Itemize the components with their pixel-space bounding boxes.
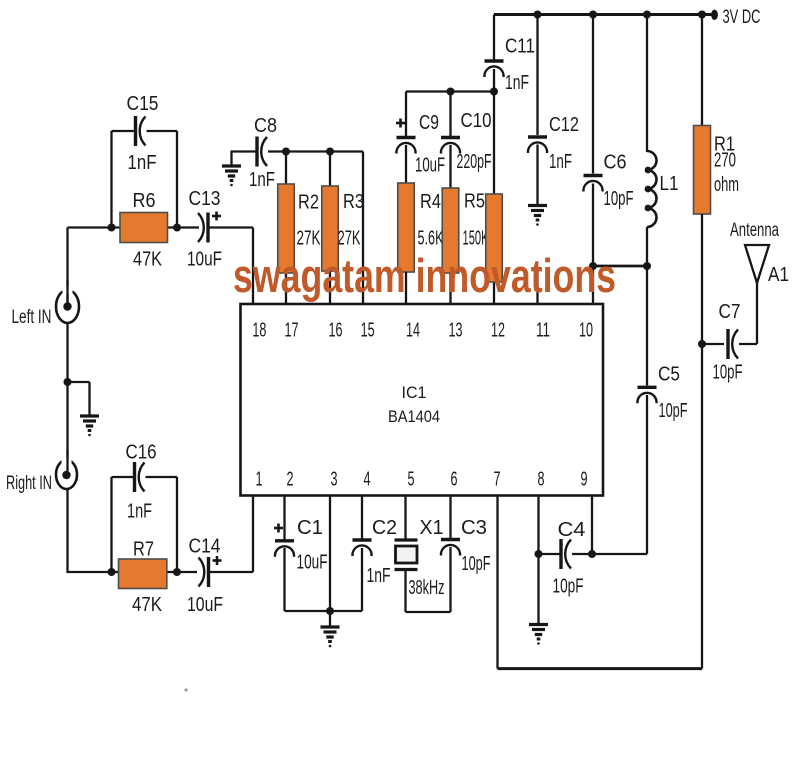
svg-text:11: 11	[536, 320, 550, 342]
capacitor C7	[726, 329, 729, 359]
wire pin 4 to C2	[361, 496, 363, 539]
node ground bus junction	[326, 607, 334, 615]
svg-text:5.6K: 5.6K	[418, 228, 444, 250]
svg-text:C16: C16	[126, 442, 157, 464]
svg-text:10pF: 10pF	[553, 576, 584, 598]
svg-text:27K: 27K	[338, 228, 361, 250]
capacitor C3	[441, 538, 460, 541]
wire pin 11 stub	[536, 268, 538, 304]
capacitor C1 polarity +	[274, 527, 283, 530]
wire 3V DC supply rail	[494, 13, 716, 16]
resistor R5b pin 12	[486, 194, 503, 282]
wire C1 to ground bus	[283, 548, 285, 611]
capacitor C6	[584, 174, 603, 177]
wire bias rail C9-C10-C11	[406, 90, 494, 92]
node C8 rail R3	[326, 148, 334, 156]
svg-text:Right IN: Right IN	[6, 473, 52, 494]
svg-text:swagatam innovations: swagatam innovations	[233, 249, 616, 302]
node C7 junction	[698, 340, 706, 348]
svg-text:C6: C6	[604, 152, 627, 174]
wire pin 9 column	[591, 496, 593, 555]
node 3V DC terminal	[711, 10, 718, 20]
wire ground stub vertical	[88, 382, 90, 416]
node bias junction C11	[490, 88, 498, 96]
svg-text:10uF: 10uF	[187, 249, 222, 271]
svg-text:C1: C1	[297, 517, 323, 539]
svg-text:C14: C14	[189, 536, 221, 558]
svg-text:12: 12	[491, 320, 505, 342]
wire R2 top	[285, 152, 287, 185]
svg-text:17: 17	[285, 320, 299, 342]
ground C12	[528, 204, 547, 207]
wire C14 to pin 1 corner	[209, 571, 254, 573]
wire L1 junction to C5	[646, 266, 648, 386]
wire pin 8 column	[537, 496, 539, 626]
wire L1 to junction	[646, 227, 648, 266]
svg-text:C9: C9	[419, 112, 439, 134]
wire C7 right	[739, 343, 757, 345]
wire R3 top	[329, 152, 331, 187]
wire pin 7 column	[496, 496, 498, 669]
wire ground bus stub	[329, 611, 331, 627]
svg-text:220pF: 220pF	[457, 151, 492, 173]
svg-text:1nF: 1nF	[367, 565, 391, 587]
wire C15 top right	[147, 130, 178, 132]
wire R1 top	[701, 15, 703, 127]
wire ground bus C1-C2	[285, 610, 363, 612]
wire C4 right	[572, 553, 592, 555]
svg-text:10: 10	[579, 320, 593, 342]
svg-text:4: 4	[364, 469, 371, 491]
svg-text:27K: 27K	[297, 228, 321, 250]
wire C7 left	[702, 343, 724, 345]
svg-text:R4: R4	[420, 191, 441, 213]
wire C16 top right	[146, 476, 178, 478]
wire L1 top	[646, 15, 648, 153]
svg-text:10uF: 10uF	[187, 594, 223, 616]
wire C15 top left	[112, 130, 135, 132]
svg-text:C3: C3	[461, 517, 487, 539]
wire C8 left	[231, 150, 257, 152]
resistor R2	[278, 184, 295, 273]
inductor L1	[647, 151, 657, 227]
wire C5 to C4 row	[646, 395, 648, 554]
svg-text:150K: 150K	[463, 228, 489, 250]
capacitor C14 polarity +	[213, 559, 222, 562]
wire antenna down	[756, 281, 758, 344]
capacitor C8	[255, 137, 258, 167]
svg-text:7: 7	[494, 469, 501, 491]
wire pin 6 to C3	[449, 496, 451, 539]
wire C11 node to R-pin12	[493, 92, 495, 196]
wire pin 5 to X1	[404, 496, 406, 541]
svg-text:15: 15	[361, 320, 375, 342]
wire C16 top left	[112, 476, 134, 478]
resistor R6	[120, 213, 168, 243]
wire C15 loop left	[110, 131, 112, 228]
wire C12 top	[536, 15, 538, 136]
capacitor C15	[134, 116, 137, 146]
svg-text:10pF: 10pF	[713, 362, 743, 384]
wire ground stub horizontal	[68, 381, 90, 383]
wire pin 15 column	[362, 152, 364, 305]
capacitor C10	[441, 136, 460, 139]
wire C11 bottom to node	[493, 69, 495, 93]
wire C8 ground stub	[230, 152, 232, 168]
wire C16 loop right	[176, 477, 178, 572]
wire C16 loop left	[110, 477, 112, 572]
wire L1 bottom link	[593, 265, 647, 268]
capacitor C9 polarity +	[396, 122, 405, 125]
wire C8 rail	[268, 150, 363, 152]
svg-text:13: 13	[449, 320, 463, 342]
svg-text:R2: R2	[298, 192, 319, 214]
ground C4	[529, 623, 548, 626]
node C8 rail R2	[282, 148, 290, 156]
node R7 right junction	[173, 568, 181, 576]
svg-text:C10: C10	[461, 110, 492, 132]
wire C2 to ground bus	[361, 548, 363, 611]
jack Right IN	[56, 460, 77, 489]
wire R5 to pin 13	[449, 273, 451, 304]
svg-text:R7: R7	[133, 539, 154, 561]
wire C5 to C4 right	[592, 553, 647, 555]
svg-text:10uF: 10uF	[415, 155, 445, 177]
resistor R7	[119, 559, 167, 589]
wire C6 to pin 10	[592, 184, 594, 305]
wire C3 bottom column	[449, 547, 451, 612]
node supply junction L1	[643, 11, 651, 19]
svg-text:10pF: 10pF	[462, 553, 491, 575]
jack Left IN	[56, 290, 79, 323]
wire R4 to pin 14	[405, 272, 407, 304]
svg-text:3V DC: 3V DC	[723, 7, 761, 28]
svg-text:9: 9	[581, 469, 588, 491]
capacitor C14	[207, 557, 210, 587]
wire C11 top	[493, 15, 495, 60]
resistor R4	[398, 183, 415, 272]
svg-text:C4: C4	[558, 519, 586, 541]
svg-text:3: 3	[331, 469, 338, 491]
svg-text:C8: C8	[254, 115, 277, 137]
wire bottom return rail	[498, 667, 703, 670]
svg-text:IC1: IC1	[402, 384, 427, 402]
wire R2 to pin 17	[285, 273, 287, 304]
wire C10 top	[449, 92, 451, 137]
wire R7 main	[67, 571, 198, 573]
svg-text:ohm: ohm	[714, 174, 739, 196]
svg-text:1: 1	[256, 469, 263, 491]
capacitor C13	[206, 213, 209, 243]
svg-text:47K: 47K	[132, 594, 163, 616]
capacitor C4	[559, 539, 562, 569]
svg-text:R6: R6	[133, 190, 156, 212]
node L1 bottom junction	[643, 262, 651, 270]
wire R6 main	[68, 226, 200, 228]
wire X1 to C3 bottom	[406, 611, 451, 613]
svg-text:A1: A1	[768, 264, 789, 286]
svg-text:BA1404: BA1404	[388, 408, 440, 426]
svg-text:1nF: 1nF	[549, 151, 572, 173]
svg-text:C15: C15	[127, 93, 159, 115]
wire C6 top	[592, 15, 594, 174]
ground C1 C2 bus	[321, 625, 340, 628]
wire C12 to ground	[536, 145, 538, 206]
wire X1 bottom	[404, 570, 406, 613]
svg-text:C7: C7	[719, 301, 741, 323]
svg-text:R3: R3	[343, 191, 364, 213]
node supply junction R1	[698, 11, 706, 19]
wire left column top	[66, 228, 68, 304]
wire C13 to pin 18 corner	[208, 226, 253, 228]
node C4 right junction	[588, 550, 596, 558]
antenna A1	[745, 245, 769, 283]
svg-text:6: 6	[451, 469, 458, 491]
svg-text:270: 270	[714, 150, 736, 172]
wire left column mid	[66, 322, 68, 462]
svg-text:14: 14	[406, 320, 420, 342]
node C4 left junction	[535, 550, 543, 558]
capacitor C9	[397, 136, 416, 139]
stray dot	[184, 688, 187, 691]
svg-text:X1: X1	[420, 517, 444, 539]
node supply junction C6	[589, 11, 597, 19]
node supply junction C12	[534, 11, 542, 19]
wire pin 1 column	[252, 496, 254, 573]
svg-text:10uF: 10uF	[297, 552, 328, 574]
svg-text:10pF: 10pF	[659, 400, 688, 422]
wire pin 2 to C1	[283, 496, 285, 540]
node R7 left junction	[108, 568, 116, 576]
svg-text:C11: C11	[505, 36, 535, 58]
capacitor C11	[485, 59, 504, 62]
op-amp IC1 BA1404 body	[241, 304, 604, 496]
wire R-pin12 to pin 12	[493, 281, 495, 304]
resistor R3	[322, 186, 339, 271]
resistor R5	[442, 188, 459, 273]
node bias junction C10	[447, 88, 455, 96]
wire C15 loop right	[176, 131, 178, 228]
svg-text:Antenna: Antenna	[730, 220, 779, 241]
capacitor C16	[133, 462, 136, 492]
ground C8	[222, 164, 241, 167]
wire C10 to R5	[449, 145, 451, 189]
crystal X1	[395, 538, 418, 541]
svg-text:1nF: 1nF	[127, 501, 152, 523]
wire left column bottom	[66, 488, 68, 573]
svg-text:1nF: 1nF	[128, 152, 157, 174]
capacitor C2	[353, 538, 372, 541]
wire C9 top	[405, 92, 407, 137]
ground left input	[80, 414, 99, 417]
svg-text:2: 2	[287, 469, 294, 491]
capacitor C5	[638, 386, 657, 389]
capacitor C1	[275, 539, 294, 542]
svg-text:C13: C13	[189, 188, 221, 210]
capacitor C12	[528, 135, 547, 138]
wire pin 3 column	[329, 496, 331, 612]
node R6 left junction	[108, 224, 116, 232]
svg-text:1nF: 1nF	[505, 72, 529, 94]
svg-text:C2: C2	[372, 517, 397, 539]
wire R3 to pin 16	[329, 271, 331, 304]
svg-text:38kHz: 38kHz	[409, 577, 445, 599]
svg-text:C5: C5	[658, 364, 680, 386]
wire C9 to R4	[405, 145, 407, 184]
svg-text:8: 8	[538, 469, 545, 491]
node left ground junction	[64, 378, 72, 386]
capacitor C13 polarity +	[212, 215, 221, 218]
svg-text:5: 5	[408, 469, 415, 491]
wire R1 to bottom rail	[701, 214, 703, 669]
svg-text:L1: L1	[660, 173, 679, 195]
svg-text:10pF: 10pF	[604, 188, 634, 210]
resistor R1	[694, 126, 711, 215]
node C6-L1 junction	[589, 262, 597, 270]
svg-text:Left IN: Left IN	[12, 307, 52, 328]
wire pin 18 column	[252, 228, 254, 305]
wire C4 left	[539, 553, 561, 555]
node R6 right junction	[173, 224, 181, 232]
svg-text:18: 18	[252, 320, 266, 342]
svg-text:R5: R5	[464, 191, 485, 213]
svg-text:1nF: 1nF	[249, 169, 275, 191]
svg-text:47K: 47K	[133, 249, 163, 271]
svg-text:16: 16	[329, 320, 343, 342]
svg-text:C12: C12	[549, 114, 579, 136]
